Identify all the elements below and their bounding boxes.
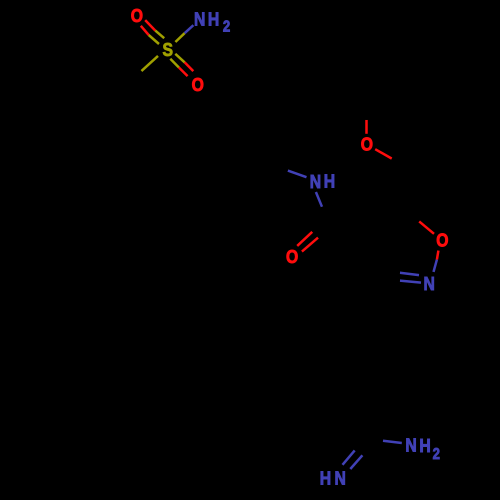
bond S=O1 double bond upper line (red O half, olive S half) [145, 20, 164, 38]
bond S=O1 double bond lower line [141, 26, 159, 44]
atom N4 amidine NH2 [405, 434, 440, 463]
bond O-N ring bond (red O half, blue N half) [434, 251, 439, 272]
svg-text:N: N [335, 467, 346, 489]
bond N=C3 ring double bond inner line [383, 271, 419, 275]
svg-text:H: H [419, 435, 430, 457]
svg-text:O: O [286, 246, 298, 268]
atom O5 isoxazole ring oxygen [436, 229, 448, 251]
bond C=O3 carbonyl double bond upper line (red O half) [297, 218, 327, 246]
atom O2 sulfonyl oxygen [192, 74, 204, 96]
svg-text:N: N [194, 8, 205, 30]
svg-text:2: 2 [223, 19, 230, 36]
atom N5 amidine HN [320, 467, 346, 489]
bond S-N single bond (olive S half, blue N half) [175, 25, 193, 42]
svg-text:H: H [324, 170, 335, 192]
bond C=O3 carbonyl double bond lower line [302, 224, 334, 252]
svg-text:O: O [192, 74, 204, 96]
bond C=NH amidine double bond inner line [350, 448, 368, 469]
bond N-CH2 amide NH up-left (blue N half; carbon half invisible) [269, 164, 306, 177]
bond C5-O ring bond (carbon half invisible; red O half) [404, 209, 434, 234]
svg-text:O: O [436, 229, 448, 251]
svg-text:H: H [208, 8, 219, 30]
svg-text:N: N [405, 434, 416, 456]
atom S sulfur [162, 39, 172, 61]
svg-text:O: O [131, 5, 143, 27]
bond O-CH2 methoxy diagonal (red O half; carbon half invisible) [375, 149, 408, 168]
bond S=O2 double bond upper line (olive S half, red O half) [175, 54, 193, 71]
atom N2 amide NH [310, 170, 335, 192]
svg-text:H: H [320, 467, 331, 489]
svg-text:N: N [424, 273, 435, 295]
bond C=NH amidine double bond main line (blue N half) [343, 436, 368, 465]
atom O1 sulfonyl oxygen [131, 5, 143, 27]
bond N=C3 ring double bond main line (blue N half; carbon half invisible) [378, 279, 422, 283]
atom N3 isoxazole ring nitrogen [424, 273, 435, 295]
atom O4 methoxy oxygen [361, 133, 373, 155]
svg-text:S: S [162, 39, 172, 61]
bond S-C to carbon chain (olive S half; carbon half invisible black) [125, 56, 158, 86]
svg-text:2: 2 [433, 446, 440, 463]
svg-text:O: O [361, 133, 373, 155]
svg-text:N: N [310, 171, 321, 193]
bond N-C carbonyl from NH down (blue N half; carbon half invisible) [316, 192, 328, 222]
atom N1 sulfonamide NH2 [194, 8, 230, 36]
bond S=O2 double bond lower line [170, 59, 187, 76]
atom O3 carbonyl oxygen [286, 246, 298, 268]
bond O-CH3 methoxy vertical (red O half; methyl half invisible) [365, 106, 368, 134]
bond C-NH2 amidine single bond (blue N half) [366, 438, 402, 444]
